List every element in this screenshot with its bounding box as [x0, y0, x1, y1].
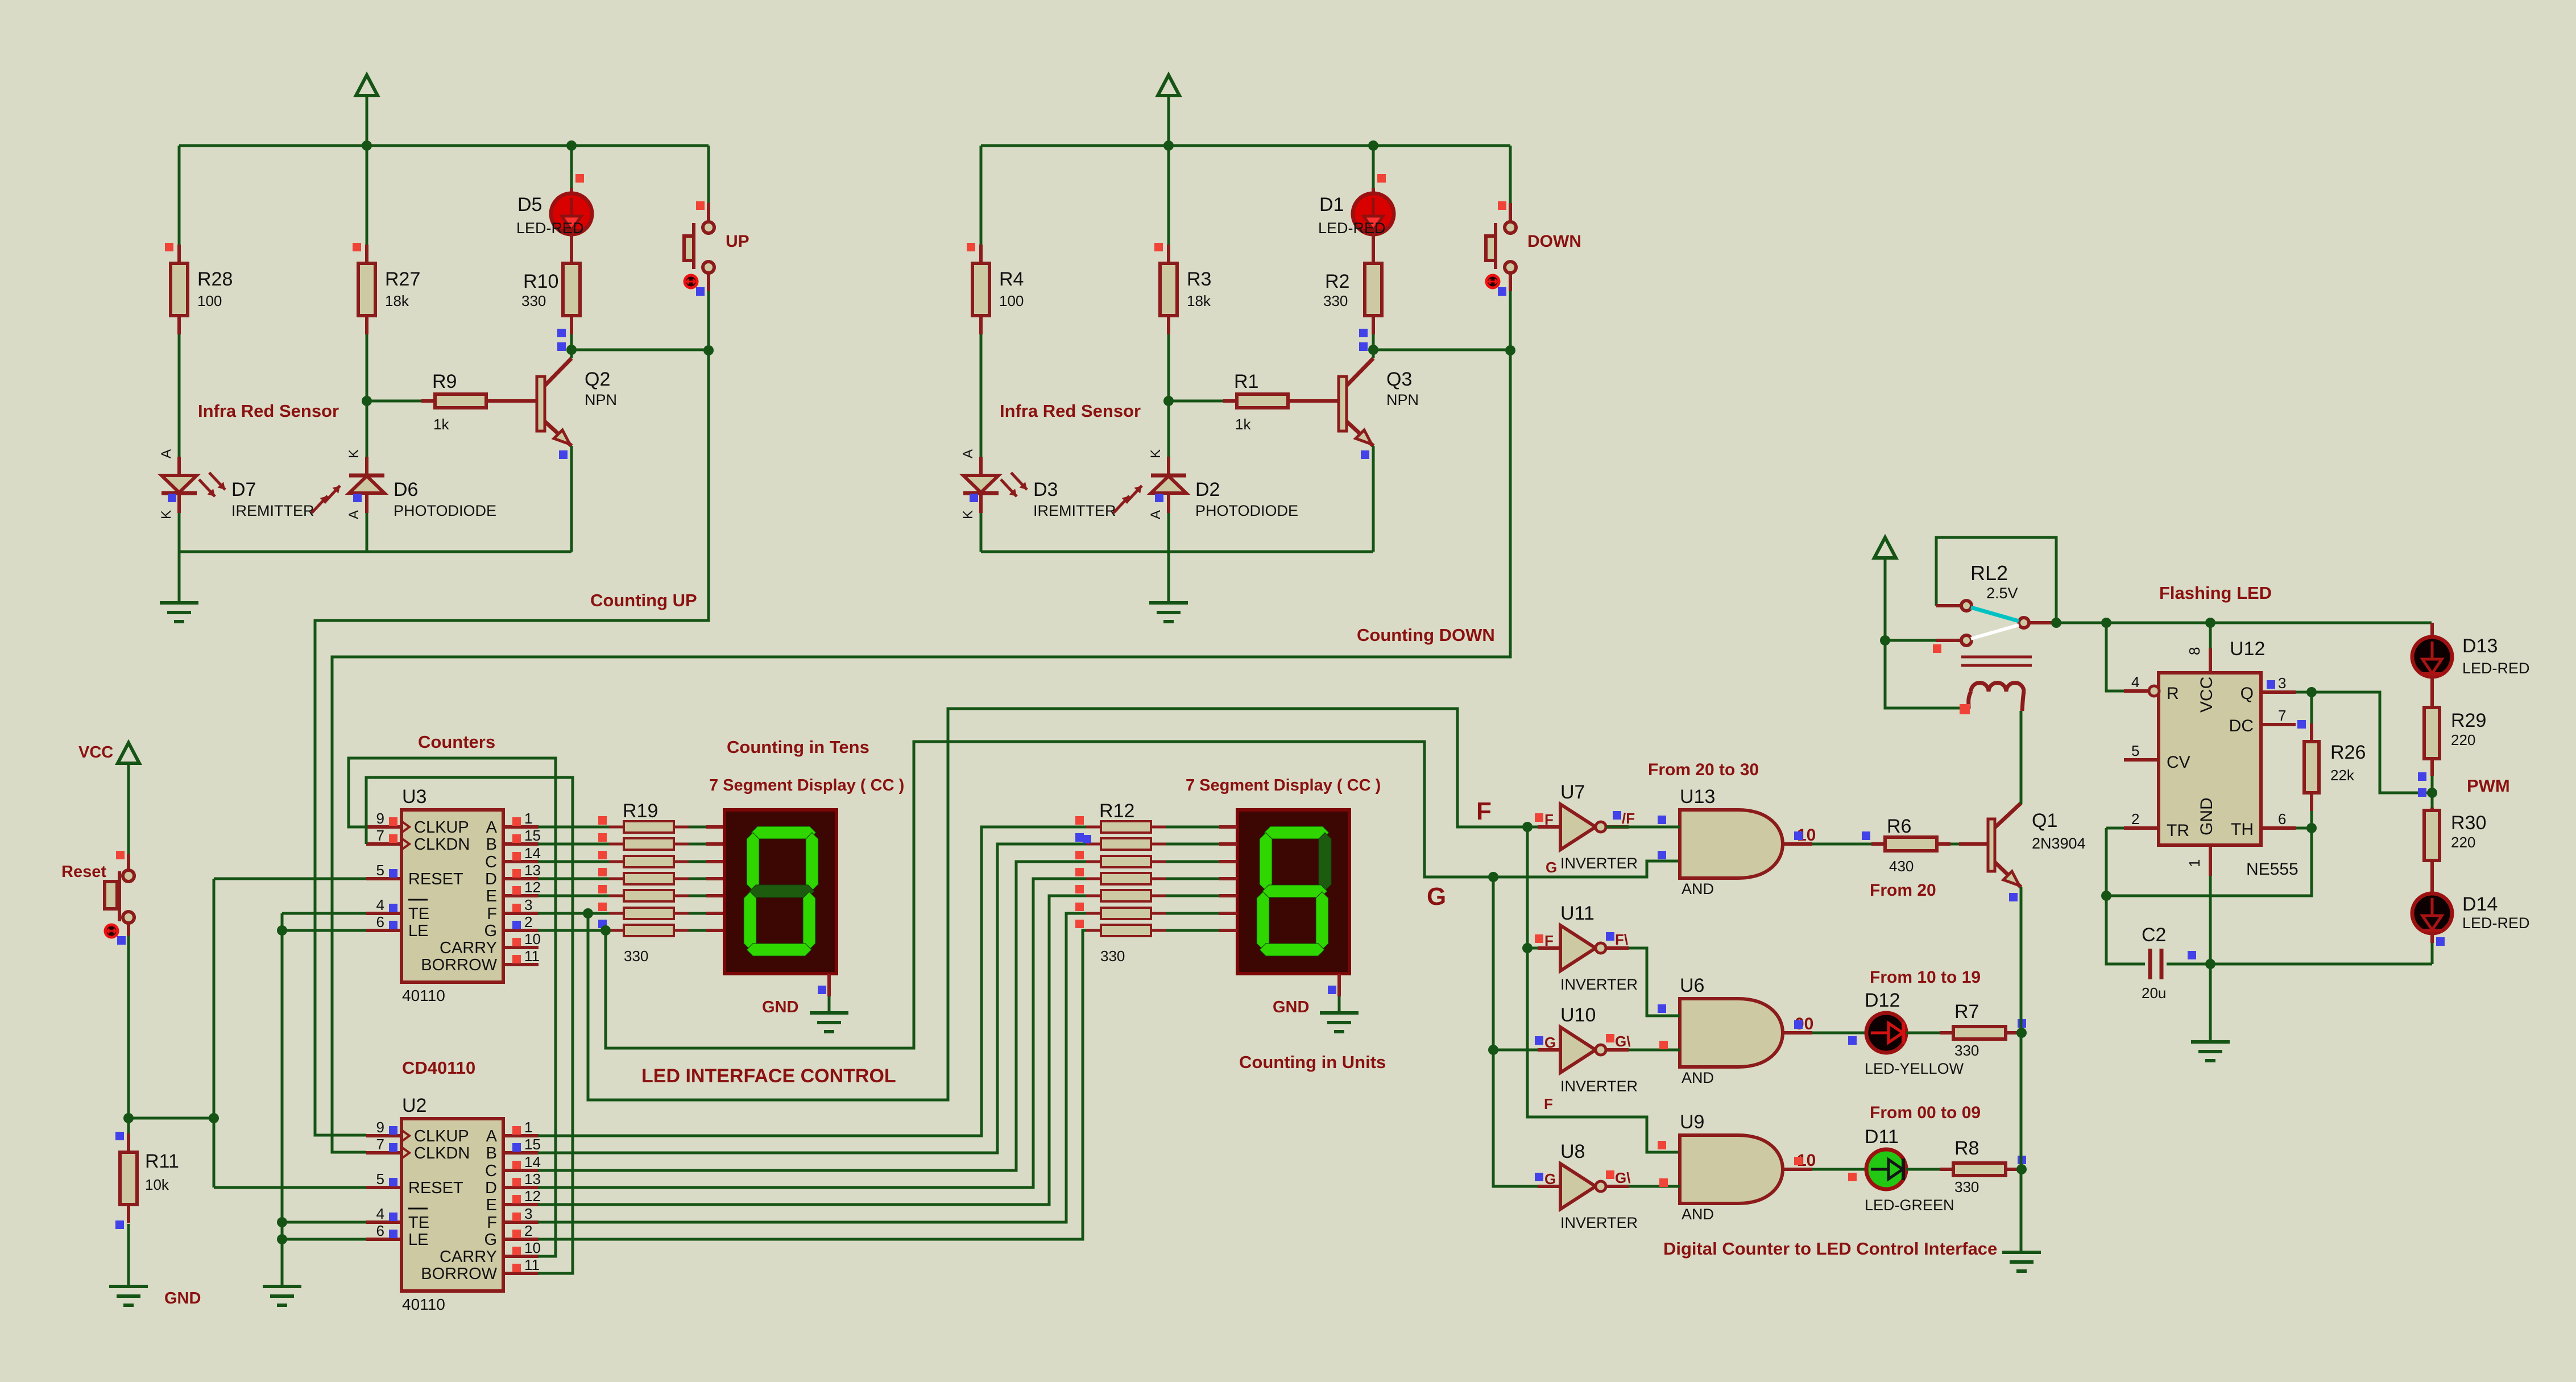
svg-text:CV: CV: [2167, 753, 2190, 772]
svg-text:C: C: [485, 1162, 497, 1180]
svg-text:INVERTER: INVERTER: [1560, 1078, 1638, 1095]
svg-text:D: D: [485, 1179, 497, 1197]
svg-text:Q2: Q2: [585, 369, 610, 390]
svg-text:G: G: [1546, 859, 1557, 876]
svg-text:330: 330: [624, 947, 648, 965]
svg-text:INVERTER: INVERTER: [1560, 855, 1638, 872]
svg-text:U12: U12: [2230, 638, 2265, 660]
svg-text:VCC: VCC: [2197, 677, 2216, 713]
svg-text:40110: 40110: [402, 987, 445, 1004]
svg-text:G: G: [1427, 883, 1446, 911]
svg-text:9: 9: [376, 810, 384, 827]
svg-text:Q: Q: [2240, 684, 2254, 703]
svg-text:2N3904: 2N3904: [2032, 835, 2086, 852]
svg-text:G: G: [1544, 1034, 1556, 1051]
svg-text:TE: TE: [408, 1214, 429, 1232]
svg-text:U7: U7: [1560, 781, 1585, 803]
svg-text:U10: U10: [1560, 1004, 1596, 1026]
svg-text:Counting DOWN: Counting DOWN: [1357, 625, 1495, 645]
svg-text:PHOTODIODE: PHOTODIODE: [1195, 502, 1298, 519]
svg-text:1: 1: [524, 810, 532, 827]
svg-text:330: 330: [1954, 1178, 1979, 1195]
svg-text:CD40110: CD40110: [402, 1058, 475, 1078]
svg-text:5: 5: [376, 1170, 384, 1187]
svg-text:G: G: [484, 922, 497, 940]
svg-text:Infra Red Sensor: Infra Red Sensor: [1000, 401, 1141, 421]
svg-text:LED INTERFACE CONTROL: LED INTERFACE CONTROL: [641, 1065, 896, 1087]
svg-text:10: 10: [524, 1239, 541, 1256]
svg-text:14: 14: [524, 1153, 541, 1170]
svg-text:BORROW: BORROW: [421, 1265, 497, 1283]
svg-text:11: 11: [524, 947, 540, 965]
svg-text:NE555: NE555: [2246, 860, 2298, 879]
svg-text:CARRY: CARRY: [440, 939, 497, 957]
svg-text:20u: 20u: [2142, 984, 2166, 1002]
svg-text:1: 1: [2186, 859, 2203, 867]
svg-text:430: 430: [1889, 858, 1914, 875]
svg-text:R3: R3: [1187, 268, 1211, 290]
svg-text:RL2: RL2: [1970, 561, 2008, 585]
svg-text:12: 12: [524, 1187, 541, 1205]
svg-text:A: A: [159, 449, 174, 458]
svg-text:LED-RED: LED-RED: [1318, 220, 1386, 237]
svg-text:Flashing LED: Flashing LED: [2159, 583, 2272, 603]
svg-text:100: 100: [999, 292, 1024, 309]
svg-text:R1: R1: [1234, 371, 1258, 392]
svg-text:K: K: [960, 510, 976, 519]
svg-text:AND: AND: [1682, 1069, 1714, 1086]
svg-text:IREMITTER: IREMITTER: [231, 502, 314, 519]
svg-text:TE: TE: [408, 905, 429, 923]
svg-text:K: K: [1148, 449, 1163, 458]
svg-text:U11: U11: [1560, 903, 1595, 924]
svg-text:5: 5: [2131, 742, 2139, 759]
svg-text:18k: 18k: [385, 292, 409, 309]
svg-text:From 20 to 30: From 20 to 30: [1648, 760, 1759, 779]
svg-text:D12: D12: [1865, 990, 1900, 1011]
svg-text:LED-RED: LED-RED: [2462, 915, 2530, 932]
svg-text:Reset: Reset: [61, 863, 106, 881]
svg-text:CLKDN: CLKDN: [414, 835, 470, 854]
svg-text:UP: UP: [726, 232, 749, 251]
svg-text:3: 3: [524, 1205, 532, 1222]
svg-text:IREMITTER: IREMITTER: [1033, 502, 1116, 519]
svg-text:2: 2: [524, 913, 532, 930]
svg-text:R7: R7: [1954, 1001, 1979, 1023]
svg-text:GND: GND: [164, 1289, 201, 1307]
svg-text:12: 12: [524, 879, 541, 896]
svg-text:R11: R11: [145, 1151, 179, 1172]
svg-text:G: G: [484, 1231, 497, 1249]
svg-text:From 00 to 09: From 00 to 09: [1870, 1103, 1981, 1122]
svg-text:R26: R26: [2330, 742, 2366, 763]
svg-text:A: A: [1148, 510, 1163, 519]
svg-text:E: E: [486, 887, 497, 905]
svg-text:U2: U2: [402, 1095, 426, 1116]
svg-text:Digital Counter to LED Control: Digital Counter to LED Control Interface: [1663, 1239, 1997, 1259]
svg-text:9: 9: [376, 1119, 384, 1136]
svg-text:B: B: [486, 835, 497, 854]
svg-text:C: C: [485, 853, 497, 871]
svg-text:R6: R6: [1887, 816, 1911, 837]
svg-text:7 Segment Display ( CC ): 7 Segment Display ( CC ): [709, 776, 904, 795]
svg-text:A: A: [486, 1127, 498, 1145]
svg-text:D: D: [485, 870, 497, 888]
svg-text:3: 3: [524, 896, 532, 913]
svg-text:6: 6: [2278, 810, 2286, 827]
svg-text:13: 13: [524, 1170, 541, 1187]
svg-text:/F: /F: [1622, 810, 1635, 827]
svg-text:F: F: [1476, 797, 1492, 825]
svg-text:R4: R4: [999, 268, 1024, 290]
svg-text:LED-RED: LED-RED: [2462, 660, 2530, 677]
svg-text:NPN: NPN: [585, 391, 617, 408]
svg-text:F\: F\: [1615, 931, 1628, 948]
svg-text:INVERTER: INVERTER: [1560, 1214, 1638, 1231]
svg-text:330: 330: [1954, 1042, 1979, 1059]
svg-text:D11: D11: [1865, 1126, 1899, 1148]
svg-text:100: 100: [197, 292, 222, 309]
svg-text:AND: AND: [1682, 880, 1714, 897]
svg-text:Q3: Q3: [1386, 369, 1412, 390]
svg-text:NPN: NPN: [1386, 391, 1419, 408]
svg-text:CLKUP: CLKUP: [414, 818, 469, 837]
svg-text:1k: 1k: [433, 416, 449, 433]
svg-text:A: A: [346, 510, 362, 519]
svg-text:7 Segment Display ( CC ): 7 Segment Display ( CC ): [1186, 776, 1381, 795]
svg-text:B: B: [486, 1144, 497, 1162]
svg-text:15: 15: [524, 827, 541, 844]
svg-text:R27: R27: [385, 268, 420, 290]
svg-text:CARRY: CARRY: [440, 1248, 497, 1266]
svg-text:2: 2: [524, 1222, 532, 1239]
svg-text:F: F: [487, 905, 497, 923]
svg-text:BORROW: BORROW: [421, 956, 497, 974]
svg-text:2: 2: [2131, 810, 2139, 827]
svg-text:GND: GND: [762, 998, 798, 1016]
svg-text:7: 7: [376, 827, 384, 844]
svg-text:DOWN: DOWN: [1527, 232, 1581, 251]
svg-text:330: 330: [1100, 947, 1125, 965]
svg-text:AND: AND: [1682, 1206, 1714, 1223]
svg-text:4: 4: [376, 1205, 384, 1222]
svg-text:U13: U13: [1680, 786, 1715, 808]
svg-text:D14: D14: [2462, 893, 2498, 915]
svg-text:7: 7: [376, 1136, 384, 1153]
svg-text:330: 330: [1323, 292, 1348, 309]
svg-text:18k: 18k: [1187, 292, 1211, 309]
svg-text:LE: LE: [408, 922, 428, 940]
svg-text:K: K: [346, 449, 362, 458]
svg-text:PHOTODIODE: PHOTODIODE: [394, 502, 496, 519]
svg-text:220: 220: [2451, 834, 2475, 851]
svg-text:R2: R2: [1325, 271, 1349, 292]
svg-text:E: E: [486, 1196, 497, 1214]
svg-text:D7: D7: [231, 479, 256, 500]
svg-text:330: 330: [521, 292, 546, 309]
svg-text:TH: TH: [2231, 820, 2254, 839]
svg-text:14: 14: [524, 845, 541, 862]
svg-text:INVERTER: INVERTER: [1560, 976, 1638, 993]
svg-text:8: 8: [2186, 647, 2203, 655]
svg-text:D13: D13: [2462, 635, 2498, 657]
svg-text:From 10 to 19: From 10 to 19: [1870, 968, 1981, 987]
svg-text:CLKDN: CLKDN: [414, 1144, 470, 1162]
svg-text:F: F: [1544, 932, 1554, 949]
svg-text:220: 220: [2451, 731, 2475, 748]
svg-text:R8: R8: [1954, 1137, 1979, 1159]
svg-text:6: 6: [376, 1222, 384, 1239]
svg-text:Counting in Units: Counting in Units: [1239, 1052, 1386, 1072]
svg-text:RESET: RESET: [408, 870, 463, 888]
svg-text:F: F: [1544, 1095, 1553, 1112]
svg-text:PWM: PWM: [2467, 776, 2510, 796]
svg-text:1: 1: [524, 1119, 532, 1136]
svg-text:D5: D5: [517, 194, 542, 216]
svg-text:7: 7: [2278, 707, 2286, 724]
svg-text:5: 5: [376, 862, 384, 879]
svg-text:F: F: [487, 1214, 497, 1232]
svg-text:R9: R9: [432, 371, 457, 392]
svg-text:D3: D3: [1033, 479, 1058, 500]
svg-text:From 20: From 20: [1870, 881, 1936, 900]
svg-text:G\: G\: [1615, 1169, 1630, 1186]
svg-text:D2: D2: [1195, 479, 1220, 500]
svg-text:G: G: [1544, 1170, 1556, 1187]
svg-text:11: 11: [524, 1256, 540, 1273]
svg-text:4: 4: [376, 896, 384, 913]
svg-text:6: 6: [376, 913, 384, 930]
svg-text:15: 15: [524, 1136, 541, 1153]
svg-text:F: F: [1544, 811, 1554, 828]
svg-text:U8: U8: [1560, 1141, 1585, 1162]
svg-text:C2: C2: [2142, 924, 2166, 946]
svg-text:U3: U3: [402, 786, 426, 808]
svg-text:13: 13: [524, 862, 541, 879]
svg-text:Counting in Tens: Counting in Tens: [727, 737, 869, 757]
svg-text:G\: G\: [1615, 1033, 1630, 1050]
svg-text:LED-GREEN: LED-GREEN: [1865, 1197, 1954, 1214]
svg-text:CLKUP: CLKUP: [414, 1127, 469, 1145]
svg-text:A: A: [486, 818, 498, 837]
svg-text:1k: 1k: [1235, 416, 1251, 433]
svg-text:10: 10: [524, 930, 541, 947]
svg-text:Infra Red Sensor: Infra Red Sensor: [198, 401, 339, 421]
svg-text:LED-RED: LED-RED: [516, 220, 584, 237]
svg-text:R12: R12: [1099, 800, 1134, 822]
svg-text:RESET: RESET: [408, 1179, 463, 1197]
svg-text:TR: TR: [2167, 821, 2189, 840]
svg-text:DC: DC: [2229, 717, 2254, 735]
svg-text:U9: U9: [1680, 1111, 1704, 1133]
svg-text:R28: R28: [197, 268, 233, 290]
svg-text:Q1: Q1: [2032, 810, 2057, 831]
svg-text:LE: LE: [408, 1231, 428, 1249]
svg-text:R30: R30: [2451, 812, 2486, 834]
svg-text:10k: 10k: [145, 1176, 169, 1193]
svg-text:2.5V: 2.5V: [1986, 585, 2018, 602]
svg-text:GND: GND: [1273, 998, 1309, 1016]
svg-text:R29: R29: [2451, 710, 2486, 731]
svg-text:R10: R10: [523, 271, 558, 292]
svg-text:A: A: [960, 449, 976, 458]
svg-text:LED-YELLOW: LED-YELLOW: [1865, 1060, 1964, 1077]
svg-text:R: R: [2167, 684, 2179, 703]
svg-text:R19: R19: [623, 800, 658, 822]
svg-text:4: 4: [2131, 673, 2139, 690]
svg-text:22k: 22k: [2330, 767, 2355, 784]
svg-text:3: 3: [2278, 675, 2286, 692]
svg-text:40110: 40110: [402, 1296, 445, 1313]
svg-text:Counting UP: Counting UP: [590, 590, 697, 610]
svg-text:VCC: VCC: [78, 743, 113, 762]
svg-text:U6: U6: [1680, 975, 1704, 996]
svg-text:D1: D1: [1319, 194, 1344, 216]
svg-text:GND: GND: [2197, 797, 2216, 835]
svg-text:Counters: Counters: [418, 732, 495, 752]
svg-text:D6: D6: [394, 479, 418, 500]
svg-text:K: K: [159, 510, 174, 519]
